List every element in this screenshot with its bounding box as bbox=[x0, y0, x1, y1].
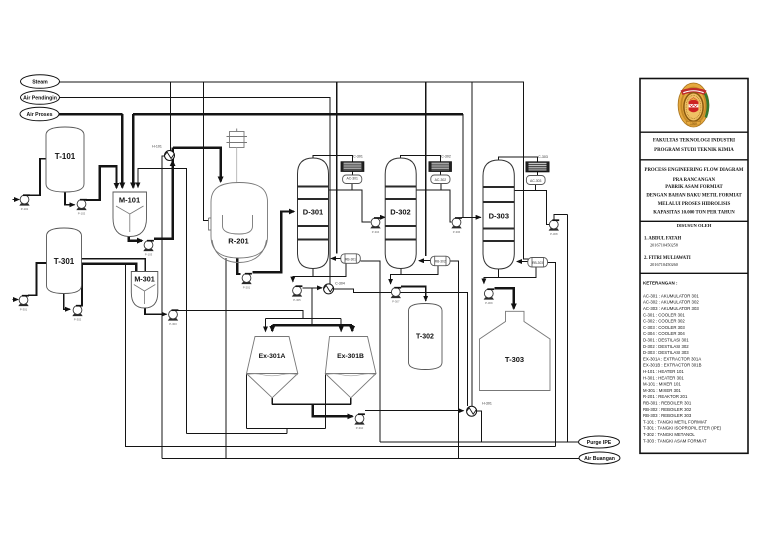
wire pump M-101 to H-101 riser bbox=[154, 148, 173, 239]
wire D-302 bottoms bbox=[391, 269, 401, 285]
node Purge IPE bbox=[579, 436, 620, 448]
svg-text:T-302: T-302 bbox=[416, 334, 434, 341]
accumulator AC-301 bbox=[343, 175, 362, 184]
svg-text:Air Pendingin: Air Pendingin bbox=[23, 96, 57, 102]
wire nest drop B thin bbox=[340, 318, 342, 331]
wire C-304 outlet to H-301 bbox=[333, 289, 467, 406]
svg-text:C-304: C-304 bbox=[335, 282, 345, 286]
svg-text:R-201 : REAKTOR 201: R-201 : REAKTOR 201 bbox=[643, 394, 688, 399]
wire D-303 bottoms to RB-303 bbox=[499, 267, 536, 277]
wire steam to R-201 jacket bbox=[204, 82, 209, 221]
svg-text:P-307: P-307 bbox=[392, 300, 400, 304]
wire nest thick bus bbox=[272, 324, 352, 326]
svg-text:H-301: H-301 bbox=[482, 402, 492, 406]
pump tags bbox=[20, 207, 558, 430]
svg-text:P-310: P-310 bbox=[356, 426, 364, 430]
svg-text:PABRIK ASAM FORMIAT: PABRIK ASAM FORMIAT bbox=[665, 185, 723, 190]
svg-text:RB-302: RB-302 bbox=[435, 260, 446, 264]
wire pump extract to H-301 bbox=[365, 410, 463, 412]
wire pump T-101 discharge to M-101 bbox=[86, 166, 117, 200]
wire C-302 to AC-302 bbox=[439, 171, 441, 175]
svg-text:P-304: P-304 bbox=[372, 230, 380, 234]
wire D-302 reflux bbox=[416, 189, 441, 191]
wire RB-303 blowdown bbox=[548, 263, 556, 447]
wire D-302 bottoms to RB-302 bbox=[401, 266, 438, 275]
wire IPE collector header bbox=[125, 446, 556, 448]
wire D-301 vapor line bbox=[313, 156, 352, 162]
wire T-101 bottom outlet bbox=[65, 192, 75, 205]
wire extractor bottoms header bbox=[272, 403, 351, 405]
wire raffinate to left web bbox=[186, 433, 287, 435]
wire RB-302 blowdown bbox=[450, 261, 459, 459]
column D-301 bbox=[298, 158, 329, 269]
wire D-303 distillate to purge bbox=[567, 214, 569, 441]
svg-text:C-302 : COOLER 302: C-302 : COOLER 302 bbox=[643, 319, 685, 324]
wire air buangan header bbox=[162, 458, 580, 460]
wire H-301 outlet bbox=[477, 411, 482, 442]
pump P D-301 bottoms bbox=[292, 286, 303, 297]
wire D-301 bottoms bbox=[293, 269, 313, 282]
wire extract feed riser bbox=[311, 288, 313, 325]
svg-text:H-101 : HEATER 101: H-101 : HEATER 101 bbox=[643, 369, 684, 374]
svg-text:D-301 : DESTILASI 301: D-301 : DESTILASI 301 bbox=[643, 338, 689, 343]
reboiler RB-301 bbox=[341, 254, 361, 263]
svg-text:RB-303 : REBOILER 303: RB-303 : REBOILER 303 bbox=[643, 413, 692, 418]
svg-text:M-101 : MIXER 101: M-101 : MIXER 101 bbox=[643, 382, 681, 387]
svg-text:PROGRAM STUDI TEKNIK KIMIA: PROGRAM STUDI TEKNIK KIMIA bbox=[654, 148, 734, 153]
svg-text:Air Proses: Air Proses bbox=[27, 112, 53, 118]
svg-text:H-301 : HEATER 301: H-301 : HEATER 301 bbox=[643, 375, 684, 380]
wire T-301 bottom outlet bbox=[64, 294, 70, 310]
extractor Ex-301A bbox=[247, 337, 298, 398]
wire purge IPE header bbox=[380, 441, 579, 443]
wire H-101 drain riser bbox=[162, 156, 165, 459]
svg-text:M-301 : MIXER 301: M-301 : MIXER 301 bbox=[643, 388, 681, 393]
wire T-301 wall to M-301 bbox=[82, 259, 146, 272]
wire RB-301 blowdown bbox=[360, 261, 380, 442]
svg-text:T-101 : TANGKI METIL FORMIAT: T-101 : TANGKI METIL FORMIAT bbox=[643, 419, 707, 424]
wire D-301 reflux bbox=[329, 189, 353, 191]
svg-text:M-101: M-101 bbox=[119, 196, 140, 205]
wire pump D-301 distillate to D-302 bbox=[381, 216, 386, 218]
wire extract to pump bbox=[313, 404, 353, 416]
pump P D-303 distillate bbox=[549, 220, 560, 231]
condenser C-301 bbox=[341, 155, 363, 172]
svg-text:FAKULTAS TEKNOLOGI INDUSTRI: FAKULTAS TEKNOLOGI INDUSTRI bbox=[653, 139, 735, 144]
svg-text:T-101: T-101 bbox=[55, 152, 76, 161]
wire C-301 to AC-301 bbox=[351, 171, 353, 175]
column D-302 bbox=[385, 158, 416, 269]
wire pump D-303 to T-303 bbox=[494, 288, 514, 308]
wire pump D-303 distillate up bbox=[554, 214, 568, 219]
node Steam bbox=[21, 75, 60, 89]
svg-text:P-306: P-306 bbox=[453, 230, 461, 234]
wire D-303 bottoms bbox=[484, 269, 499, 284]
svg-text:D-303: D-303 bbox=[489, 212, 509, 221]
svg-text:MELALUI PROSES HIDROLISIS: MELALUI PROSES HIDROLISIS bbox=[658, 202, 731, 207]
svg-text:RB-301: RB-301 bbox=[345, 257, 356, 261]
svg-text:C-301 : COOLER 301: C-301 : COOLER 301 bbox=[643, 312, 685, 317]
column D-303 bbox=[483, 160, 514, 269]
pump P D-301 distillate bbox=[370, 218, 381, 229]
tank T-303 bbox=[480, 311, 551, 390]
svg-text:KETERANGAN :: KETERANGAN : bbox=[643, 281, 678, 286]
pump P T-101 out bbox=[76, 200, 87, 211]
svg-text:EX-301A : EXTRACTOR 301A: EX-301A : EXTRACTOR 301A bbox=[643, 356, 701, 361]
wire D-303 reflux bbox=[514, 189, 535, 191]
wire extractor A bottom bbox=[271, 398, 273, 405]
svg-text:R-201: R-201 bbox=[228, 237, 248, 246]
wire extractor B bottom bbox=[350, 398, 352, 405]
pump P T-101 feed bbox=[19, 195, 30, 206]
svg-text:AC-302 : AKUMULATOR 302: AC-302 : AKUMULATOR 302 bbox=[643, 300, 699, 305]
svg-text:RB-301 : REBOILER 301: RB-301 : REBOILER 301 bbox=[643, 401, 692, 406]
svg-text:1. ABDUL FATAH: 1. ABDUL FATAH bbox=[644, 237, 681, 242]
svg-text:T-303 : TANGKI ASAM FORMIAT: T-303 : TANGKI ASAM FORMIAT bbox=[643, 438, 707, 443]
wire RB-301 return bbox=[331, 258, 341, 260]
svg-text:D-303 : DESTILASI 303: D-303 : DESTILASI 303 bbox=[643, 350, 689, 355]
wire air pendingin header bbox=[60, 98, 331, 285]
wire D-301 bottoms to RB-301 bbox=[313, 263, 346, 276]
reboiler RB-303 bbox=[528, 258, 548, 268]
wire AC-303 to pump bbox=[535, 190, 549, 224]
wire nest drop A thick bbox=[271, 325, 273, 331]
wire steam to RB-302 bbox=[425, 82, 427, 256]
node Air Proses bbox=[20, 107, 59, 121]
svg-text:T-301 : TANGKI ISOPROPIL ETER: T-301 : TANGKI ISOPROPIL ETER (IPE) bbox=[643, 426, 722, 431]
wire D-302 vapor line bbox=[401, 156, 441, 162]
cooler C-304 bbox=[324, 282, 345, 294]
wire C-303 to AC-303 bbox=[537, 172, 539, 176]
wire pump1b suction stub bbox=[13, 299, 19, 301]
condenser C-303 bbox=[526, 155, 549, 172]
wire steam to H-101 bbox=[170, 82, 172, 151]
wire AC-303 outlet bbox=[534, 185, 536, 191]
svg-text:D-302 : DESTILASI 302: D-302 : DESTILASI 302 bbox=[643, 344, 689, 349]
svg-text:P-309: P-309 bbox=[485, 301, 493, 305]
wire web riser to M-101 4th inlet bbox=[138, 168, 187, 433]
reboiler RB-302 bbox=[431, 256, 451, 266]
mixer M-301 bbox=[131, 272, 158, 309]
node Air Buangan bbox=[579, 452, 620, 464]
svg-text:T-303: T-303 bbox=[505, 355, 524, 364]
svg-text:EX-301B : EXTRACTOR 301B: EX-301B : EXTRACTOR 301B bbox=[643, 363, 702, 368]
wire steam header bbox=[60, 82, 529, 259]
svg-text:P-303: P-303 bbox=[169, 322, 177, 326]
svg-text:P-302: P-302 bbox=[74, 318, 82, 322]
wire RB-303 return bbox=[517, 261, 528, 263]
wire steam to RB-301 bbox=[336, 82, 338, 254]
wire RB-302 return bbox=[419, 260, 431, 262]
svg-text:AC-303: AC-303 bbox=[530, 179, 542, 183]
wire steam to H-301 bbox=[471, 82, 473, 406]
wire air proses to M-101 bbox=[59, 113, 122, 116]
pump P M-101 out bbox=[143, 241, 154, 252]
pump P D-302 bottoms bbox=[391, 288, 402, 299]
svg-text:P-305: P-305 bbox=[293, 298, 301, 302]
svg-text:PRA RANCANGAN: PRA RANCANGAN bbox=[673, 178, 716, 183]
wire pump D-301 bottoms to C-304 bbox=[302, 287, 322, 289]
svg-text:P-308: P-308 bbox=[550, 232, 558, 236]
wire pump T-301 discharge to M-301 bbox=[82, 264, 136, 306]
wire M-301 outlet to pump bbox=[145, 308, 166, 314]
svg-text:DISUSUN OLEH: DISUSUN OLEH bbox=[677, 223, 712, 228]
svg-text:AC-301 : AKUMULATOR 301: AC-301 : AKUMULATOR 301 bbox=[643, 293, 699, 298]
svg-text:AC-303 : AKUMULATOR 303: AC-303 : AKUMULATOR 303 bbox=[643, 306, 699, 311]
svg-text:P-103: P-103 bbox=[145, 253, 153, 257]
pump P M-301 out bbox=[168, 310, 179, 321]
wire nest drop A thin bbox=[265, 318, 267, 331]
wire AC-301 outlet bbox=[351, 184, 353, 191]
svg-text:C-303: C-303 bbox=[538, 155, 548, 159]
condenser C-302 bbox=[429, 155, 451, 172]
svg-text:KAPASITAS 10.000 TON PER TAHUN: KAPASITAS 10.000 TON PER TAHUN bbox=[653, 210, 735, 215]
svg-text:AC-302: AC-302 bbox=[435, 178, 447, 182]
logo university emblem bbox=[678, 83, 709, 127]
wire nest drop B thick bbox=[351, 325, 353, 331]
wire M-101 outlet to pump bbox=[129, 237, 142, 241]
svg-text:C-304 : COOLER 304: C-304 : COOLER 304 bbox=[643, 331, 685, 336]
wire pump1 to T-101 wall bbox=[29, 159, 46, 196]
tank T-302 bbox=[409, 304, 443, 370]
wire M-301 pump discharge to extractor nest bbox=[178, 311, 303, 319]
svg-text:2016710450260: 2016710450260 bbox=[650, 262, 678, 267]
wire R-201 drain bbox=[225, 258, 227, 459]
svg-text:RB-302 : REBOILER 302: RB-302 : REBOILER 302 bbox=[643, 407, 692, 412]
wire AC-302 to pump bbox=[441, 190, 452, 222]
svg-text:T-302 : TANGKI METANOL: T-302 : TANGKI METANOL bbox=[643, 432, 695, 437]
svg-text:1958: 1958 bbox=[690, 122, 697, 126]
tank T-301 bbox=[47, 228, 82, 294]
wire recycle header bbox=[133, 113, 463, 116]
pump P D-303 bottoms bbox=[484, 289, 495, 300]
pump P R-201 out bbox=[241, 274, 252, 285]
svg-text:M-301: M-301 bbox=[134, 275, 154, 284]
wire pump1b to T-301 wall bbox=[28, 263, 47, 295]
svg-text:C-301: C-301 bbox=[353, 155, 363, 159]
pump P D-302 distillate bbox=[451, 218, 462, 229]
node Air Pendingin bbox=[21, 91, 60, 105]
svg-text:T-301: T-301 bbox=[54, 257, 75, 266]
heater H-301 bbox=[467, 402, 492, 417]
titleblock frame bbox=[640, 79, 748, 454]
svg-text:Steam: Steam bbox=[32, 80, 48, 86]
svg-text:Purge IPE: Purge IPE bbox=[587, 440, 612, 446]
accumulator AC-302 bbox=[431, 175, 450, 184]
svg-text:Ex-301A: Ex-301A bbox=[259, 353, 286, 360]
svg-text:D-302: D-302 bbox=[390, 208, 410, 217]
svg-text:C-302: C-302 bbox=[441, 155, 451, 159]
svg-text:Air Buangan: Air Buangan bbox=[584, 456, 615, 462]
wire pump D-302 to T-302 bbox=[401, 286, 426, 301]
wire raffinate drop bbox=[286, 428, 288, 433]
wire D-303 vapor line bbox=[499, 157, 538, 162]
extractor Ex-301B bbox=[325, 337, 376, 398]
heater H-101 bbox=[152, 145, 174, 165]
wire AC-302 outlet bbox=[440, 184, 442, 191]
svg-text:AC-301: AC-301 bbox=[346, 176, 358, 180]
pump P T-301 out bbox=[72, 306, 83, 317]
svg-text:DENGAN BAHAN BAKU METIL FORMIA: DENGAN BAHAN BAKU METIL FORMIAT bbox=[646, 193, 742, 198]
svg-text:P-201: P-201 bbox=[243, 286, 251, 290]
tank T-101 bbox=[46, 127, 84, 192]
pump P extract bbox=[354, 414, 365, 425]
mixer M-101 bbox=[113, 192, 147, 237]
wire nest upper bus bbox=[266, 317, 342, 319]
svg-text:P-301: P-301 bbox=[20, 308, 28, 312]
svg-text:Ex-301B: Ex-301B bbox=[337, 353, 364, 360]
wire pump D-302 distillate to D-303 bbox=[462, 216, 481, 218]
wire H-101 out to R-201 bbox=[173, 148, 221, 182]
accumulator AC-303 bbox=[526, 176, 545, 185]
wire extractor A raffinate bbox=[246, 374, 248, 429]
svg-text:D-301: D-301 bbox=[303, 208, 323, 217]
svg-text:P-102: P-102 bbox=[78, 212, 86, 216]
wire pump R-201 to D-301 feed bbox=[253, 212, 294, 273]
svg-text:RB-303: RB-303 bbox=[532, 261, 543, 265]
svg-text:2. FITRI MULIAWATI: 2. FITRI MULIAWATI bbox=[644, 256, 691, 261]
wire recycle down to D-303 feed bbox=[462, 114, 464, 217]
wire IPE collector riser bbox=[124, 264, 126, 447]
pump P T-301 feed bbox=[18, 296, 29, 307]
svg-text:P-101: P-101 bbox=[21, 207, 29, 211]
wire raffinate header bbox=[247, 427, 326, 429]
svg-text:2016710450258: 2016710450258 bbox=[650, 242, 678, 247]
svg-text:H-101: H-101 bbox=[152, 145, 162, 149]
wire R-201 outlet to pump bbox=[237, 258, 240, 274]
svg-text:PROCESS ENGINEERING FLOW DIAGR: PROCESS ENGINEERING FLOW DIAGRAM bbox=[645, 168, 744, 173]
wire AC-301 to pump bbox=[352, 190, 370, 222]
reactor R-201 bbox=[209, 129, 268, 263]
svg-text:C-303 : COOLER 303: C-303 : COOLER 303 bbox=[643, 325, 685, 330]
wire pump1 suction stub bbox=[13, 199, 20, 201]
wire extractor B raffinate bbox=[324, 374, 326, 429]
